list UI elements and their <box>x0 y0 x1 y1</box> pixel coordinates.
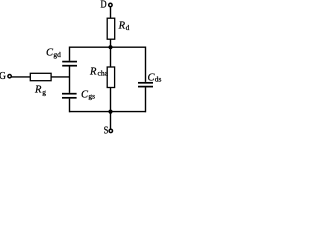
terminal D circle <box>109 3 112 6</box>
svg-text:ds: ds <box>155 75 162 84</box>
capacitor Cds <box>138 82 153 84</box>
resistor Rcha <box>107 67 114 88</box>
svg-text:S: S <box>104 126 109 136</box>
junction dot top node <box>108 45 112 49</box>
wire Rd to top node <box>110 39 112 47</box>
wire right branch top <box>145 47 147 82</box>
wire left branch top <box>69 47 71 61</box>
svg-text:D: D <box>101 0 107 11</box>
wire top node to Rcha <box>110 47 112 67</box>
capacitor Cgs <box>62 93 77 95</box>
wire Cgs to bottom wire <box>69 99 71 113</box>
wire Cgd to Cgs <box>69 67 71 93</box>
svg-text:gd: gd <box>53 50 61 59</box>
terminal G circle <box>8 75 11 78</box>
svg-text:cha: cha <box>98 69 109 78</box>
terminal S circle <box>109 129 112 132</box>
top wire <box>70 46 146 48</box>
wire Rg to left branch <box>51 76 69 78</box>
wire Rcha to bottom node <box>110 88 112 112</box>
svg-text:g: g <box>42 88 46 97</box>
svg-text:d: d <box>126 23 130 32</box>
capacitor Cgd <box>62 61 77 63</box>
svg-text:R: R <box>34 85 42 96</box>
wire G to Rg <box>12 76 31 78</box>
svg-text:R: R <box>89 67 97 78</box>
junction dot bottom node <box>108 110 112 114</box>
wire bottom node to S <box>110 112 112 130</box>
svg-text:gs: gs <box>88 92 95 101</box>
resistor Rd <box>107 18 115 39</box>
svg-text:R: R <box>118 21 126 32</box>
svg-text:G: G <box>0 71 6 82</box>
wire Cds to bottom wire <box>145 87 147 112</box>
bottom wire <box>70 111 146 113</box>
resistor Rg <box>30 73 51 80</box>
wire D to Rd <box>110 7 112 19</box>
